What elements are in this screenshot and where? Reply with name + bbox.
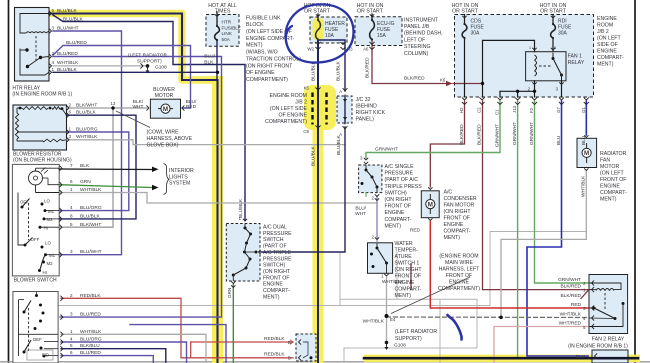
label A/C single pressure pin numbers bbox=[360, 156, 375, 201]
connector A below J/C 32 bbox=[339, 117, 347, 137]
switch S2 internal contacts bbox=[19, 292, 59, 361]
relay K3 pin connectors bbox=[592, 280, 595, 329]
svg-text:BLU/WHT: BLU/WHT bbox=[57, 25, 79, 31]
svg-text:30A: 30A bbox=[558, 31, 568, 37]
engine room main wire harness outline (upper) bbox=[46, 232, 586, 363]
svg-text:ENGINE: ENGINE bbox=[597, 49, 617, 55]
wire BLK/WHT branch junction 13 down to blower switch pin5 bbox=[59, 108, 113, 227]
label BLU 2 wire label (bottom) bbox=[576, 354, 591, 361]
wire BLU/WHT pin3 to blower switch pin3 bbox=[53, 31, 122, 255]
fuse ECU-IG 15A bbox=[370, 14, 375, 40]
wire GRN/WHT C1 to A/C single pressure switch pin3 bbox=[366, 101, 500, 158]
svg-text:MENT): MENT) bbox=[395, 293, 412, 299]
wire BLU/BLK pin1 to highlighted wire junction bbox=[53, 71, 218, 73]
label A6 connector label bbox=[363, 47, 369, 52]
svg-text:PRESSURE: PRESSURE bbox=[263, 256, 292, 262]
svg-text:1: 1 bbox=[70, 329, 73, 334]
svg-text:COLUMN): COLUMN) bbox=[404, 51, 428, 57]
svg-text:TIMES: TIMES bbox=[215, 9, 231, 15]
wire BLU/WHT water temp pin2 connector bbox=[376, 238, 378, 243]
svg-text:(ON RIGHT: (ON RIGHT bbox=[444, 209, 472, 215]
svg-text:MAIN WIRE: MAIN WIRE bbox=[445, 260, 473, 266]
wire thick BLU/BLK along bottom edge highlighted bbox=[364, 357, 638, 360]
svg-text:BLK/RED: BLK/RED bbox=[560, 293, 581, 299]
svg-text:(ON LEFT: (ON LEFT bbox=[600, 171, 624, 177]
label BLU/BLK vertical below C9 bbox=[311, 145, 317, 166]
wire highlight: yellow marker over BLU/BLK circuit from HTR relay pin 5 bbox=[49, 14, 218, 363]
fuse HTR fusible link 50A bbox=[215, 14, 220, 41]
motor M1 BLOWER MOTOR box bbox=[150, 99, 180, 118]
svg-text:M2: M2 bbox=[47, 217, 54, 222]
wire WHT/BLK mode switch pin1 bbox=[61, 334, 206, 363]
svg-text:4: 4 bbox=[70, 337, 73, 342]
svg-text:WHT/BLK: WHT/BLK bbox=[57, 60, 79, 66]
wire BLK/RED C2 to FAN 2 relay pin1 bbox=[483, 101, 589, 290]
svg-text:OR START: OR START bbox=[357, 9, 384, 15]
label J/C 32 note bbox=[356, 97, 386, 123]
wire FAN1 relay contact out to G7 bbox=[561, 81, 563, 97]
svg-text:WHT/BLK: WHT/BLK bbox=[363, 319, 385, 325]
motor M2 radiator fan motor symbol bbox=[582, 135, 591, 170]
label water temp pin numbers bbox=[372, 235, 385, 279]
svg-text:LO: LO bbox=[44, 199, 50, 204]
arrow to interior lights (GRN) bbox=[152, 185, 159, 190]
svg-text:SYSTEM: SYSTEM bbox=[169, 181, 190, 187]
resistor R1 pin connectors bbox=[66, 105, 69, 142]
wire FAN1 relay coil return to F2 bbox=[534, 81, 536, 97]
svg-text:W2: W2 bbox=[307, 47, 314, 52]
label W2 connector label bbox=[307, 47, 314, 52]
label K5 connector label bbox=[304, 86, 310, 91]
svg-text:SUPPORT): SUPPORT) bbox=[395, 336, 422, 342]
svg-text:1: 1 bbox=[52, 67, 55, 72]
fusible link block box (HOT AT ALL TIMES) bbox=[206, 15, 239, 47]
switch S5 WATER TEMPERATURE SWITCH 1 box bbox=[368, 243, 393, 273]
wire HTR fusible link feed and output bbox=[216, 12, 218, 26]
svg-text:ENGINE: ENGINE bbox=[444, 222, 464, 228]
svg-text:G7: G7 bbox=[556, 107, 561, 113]
svg-text:1: 1 bbox=[69, 126, 72, 131]
svg-text:GRN/WHT: GRN/WHT bbox=[375, 146, 398, 152]
svg-text:B: B bbox=[288, 340, 291, 345]
label connector J13 and wire GRN/WHT vertical bbox=[512, 105, 518, 145]
label HTR RELAY title bbox=[12, 86, 72, 98]
relay K2 FAN 1 RELAY box bbox=[526, 52, 566, 81]
relay K2 FAN 1 RELAY internal coil and contact bbox=[532, 48, 563, 85]
svg-text:50A: 50A bbox=[222, 37, 231, 42]
svg-text:BLU/BLK: BLU/BLK bbox=[76, 110, 97, 116]
svg-text:M1: M1 bbox=[49, 253, 56, 258]
svg-text:(ON RIGHT FRONT: (ON RIGHT FRONT bbox=[246, 63, 293, 69]
connector K6 BLK/RED into J/B 2 bbox=[446, 81, 453, 87]
svg-text:(BEHIND: (BEHIND bbox=[356, 104, 378, 110]
label cowl wire harness note bbox=[147, 130, 193, 149]
svg-text:GRN/WHT: GRN/WHT bbox=[529, 122, 535, 145]
svg-text:13: 13 bbox=[111, 101, 116, 106]
svg-text:C9: C9 bbox=[303, 129, 309, 134]
svg-text:BLK/BLU: BLK/BLU bbox=[80, 343, 100, 349]
svg-text:HI: HI bbox=[44, 226, 48, 231]
svg-text:BLU: BLU bbox=[581, 135, 587, 145]
svg-text:MOTOR: MOTOR bbox=[155, 93, 174, 99]
wire BLK/RED K6 into engine room J/B 2 bbox=[453, 83, 483, 85]
label HEATER FUSE 10A value bbox=[325, 21, 345, 39]
svg-text:SWITCH): SWITCH) bbox=[263, 263, 285, 269]
label BLOWER MOTOR title bbox=[153, 87, 175, 99]
annotation: blue pen stroke (bottom middle-right) bbox=[448, 315, 462, 340]
label blower switch wire labels bbox=[70, 163, 102, 255]
page bottom border bbox=[0, 361, 650, 363]
wire RED/BLK branch to connector upper pin bbox=[190, 342, 192, 358]
svg-text:A/C TRIPLE: A/C TRIPLE bbox=[263, 250, 292, 256]
svg-text:ENGINE: ENGINE bbox=[263, 282, 283, 288]
label ENGINE ROOM J/B 2 note (right) bbox=[597, 16, 624, 68]
svg-text:4: 4 bbox=[70, 205, 73, 210]
svg-text:DEF: DEF bbox=[33, 337, 42, 342]
engine room J/B heater fuse box bbox=[310, 17, 347, 43]
svg-text:MENT): MENT) bbox=[597, 62, 614, 68]
svg-text:BLU/BLK: BLU/BLK bbox=[80, 214, 101, 220]
wire BLU G1 to radiator fan motor bbox=[585, 101, 587, 135]
label HOT IN ON OR START header (CDS) bbox=[452, 3, 479, 15]
svg-text:WHT/BLK: WHT/BLK bbox=[76, 134, 98, 140]
ground G108 (left radiator support, HTR relay WHT/BLK) bbox=[140, 63, 149, 73]
svg-text:A/C SINGLE: A/C SINGLE bbox=[385, 164, 415, 170]
motor M3 A/C condenser fan motor symbol bbox=[426, 187, 435, 220]
svg-text:BLU/RED: BLU/RED bbox=[80, 312, 101, 318]
svg-text:BLU/ORG: BLU/ORG bbox=[80, 337, 102, 343]
svg-text:TEMPER-: TEMPER- bbox=[395, 248, 419, 254]
svg-text:FAN: FAN bbox=[600, 158, 610, 164]
wire BLK/RED stub at water temp switch bbox=[410, 264, 412, 290]
svg-text:BLK/RED: BLK/RED bbox=[459, 124, 465, 145]
svg-text:OFF: OFF bbox=[31, 237, 40, 242]
fuse RDI 30A bbox=[551, 16, 556, 39]
svg-text:WHT: WHT bbox=[133, 104, 144, 110]
svg-text:(IN ENGINE ROOM R/B 1): (IN ENGINE ROOM R/B 1) bbox=[12, 91, 72, 97]
svg-text:J/B 2: J/B 2 bbox=[295, 100, 307, 106]
node junction WHT/BLK on E4 line bbox=[499, 316, 503, 320]
relay K3 FAN 2 RELAY box bbox=[589, 275, 628, 334]
svg-text:WHT/RED: WHT/RED bbox=[559, 321, 582, 327]
relay K1 pin connectors bbox=[49, 11, 52, 75]
svg-text:OR START: OR START bbox=[452, 9, 479, 15]
wire BLK/RED diagonal into FAN 2 relay pin1 bbox=[581, 291, 588, 299]
svg-text:FRONT OF: FRONT OF bbox=[446, 273, 472, 279]
svg-text:(ON LEFT: (ON LEFT bbox=[597, 36, 621, 42]
svg-text:HARNESS, LEFT: HARNESS, LEFT bbox=[439, 267, 480, 273]
label RDI FUSE 30A value bbox=[558, 19, 572, 37]
highlight over HEATER fuse symbol bbox=[313, 18, 324, 40]
svg-text:PRESSURE: PRESSURE bbox=[263, 231, 292, 237]
svg-text:GLOVE BOX): GLOVE BOX) bbox=[147, 142, 179, 148]
wire fusible link output to junction bbox=[216, 40, 218, 80]
wire BLU/BLK J/C 32 internal bbox=[344, 95, 346, 123]
svg-text:RED: RED bbox=[186, 104, 197, 110]
motor M3 A/C CONDENSER FAN MOTOR box bbox=[421, 191, 439, 218]
label connector C1 and wire GRN/WHT vertical bbox=[495, 109, 501, 147]
label CDS FUSE 30A value bbox=[471, 19, 485, 37]
wire BLU/BLK heater fuse output highlighted bbox=[317, 40, 319, 363]
svg-text:COMPART-: COMPART- bbox=[395, 287, 422, 293]
svg-text:H2: H2 bbox=[459, 107, 464, 113]
wire RDI fuse output to FAN1 relay contact bbox=[552, 38, 554, 52]
wire WHT/BLK pin4 to ground G108 bbox=[53, 65, 146, 67]
svg-text:(ON RIGHT: (ON RIGHT bbox=[385, 197, 413, 203]
label BLU/BLK vertical (R3 wire) bbox=[336, 60, 342, 81]
wire RED/BLK upper to connector bbox=[191, 341, 293, 343]
label A/C SINGLE PRESSURE note bbox=[385, 164, 423, 229]
label FAN1 relay pin numbers bbox=[528, 46, 559, 92]
svg-text:M1: M1 bbox=[48, 209, 55, 214]
label mode switch position labels bbox=[33, 337, 49, 357]
svg-text:RADIATOR: RADIATOR bbox=[600, 151, 627, 157]
svg-text:G108: G108 bbox=[155, 64, 167, 70]
svg-text:BLU/WHT: BLU/WHT bbox=[80, 249, 102, 255]
svg-text:K6: K6 bbox=[440, 78, 446, 83]
svg-text:FRONT OF: FRONT OF bbox=[395, 274, 421, 280]
label BLOWER SWITCH title bbox=[14, 278, 57, 284]
wire BLU/RED pin2 to mode switch pin3 bbox=[53, 57, 222, 318]
label FAN 2 relay wire labels bbox=[558, 277, 586, 330]
label BLOWER RESISTOR title bbox=[13, 152, 72, 164]
svg-text:3: 3 bbox=[70, 312, 73, 317]
label HOT IN ON OR START header (ECU-IG) bbox=[357, 3, 384, 15]
svg-text:STEERING: STEERING bbox=[404, 44, 431, 50]
fuse HEATER 10A bbox=[316, 14, 321, 40]
svg-text:BLU/BLK: BLU/BLK bbox=[63, 16, 84, 22]
instrument panel J/B box bbox=[355, 17, 402, 46]
junction connector J/C 32 box bbox=[337, 96, 352, 123]
wire CDS fuse feed bbox=[464, 15, 466, 25]
wire BLU/RED pin2 branch to blower motor bbox=[53, 46, 191, 109]
label mode switch wire labels bbox=[70, 293, 102, 356]
label connector C2 and wire BLK/RED vertical bbox=[477, 107, 483, 145]
svg-text:5: 5 bbox=[70, 343, 73, 348]
engine room J/B 2 box (top right) bbox=[455, 15, 594, 98]
svg-text:M2: M2 bbox=[47, 261, 54, 266]
svg-text:RED/BLK: RED/BLK bbox=[264, 351, 285, 357]
svg-text:RED/BLK: RED/BLK bbox=[80, 293, 101, 299]
svg-text:BLU/: BLU/ bbox=[355, 205, 366, 211]
svg-text:BLK/WHT: BLK/WHT bbox=[80, 222, 101, 228]
relay K1 HTR RELAY internal coil and contacts bbox=[20, 14, 49, 76]
svg-text:BLU/BLK: BLU/BLK bbox=[336, 60, 342, 81]
svg-text:3: 3 bbox=[70, 249, 73, 254]
node E4 junction bbox=[385, 314, 389, 318]
svg-text:COMPART-: COMPART- bbox=[600, 190, 627, 196]
svg-text:2: 2 bbox=[52, 51, 55, 56]
svg-text:(PART OF A/C: (PART OF A/C bbox=[385, 177, 419, 183]
resistor R1 BLOWER RESISTOR box bbox=[13, 105, 67, 150]
label blower resistor wire labels bbox=[69, 102, 99, 140]
svg-text:E4: E4 bbox=[390, 317, 396, 322]
svg-text:BLK/: BLK/ bbox=[133, 99, 144, 105]
svg-text:SUPPORT): SUPPORT) bbox=[137, 59, 162, 65]
svg-text:LIGHTS: LIGHTS bbox=[169, 174, 188, 180]
label FAN 1 RELAY title bbox=[568, 54, 585, 66]
svg-text:(LEFT RADIATOR: (LEFT RADIATOR bbox=[395, 329, 437, 335]
wire WHT/BLK water temp pin1 to E4 and ground G108 bbox=[386, 278, 388, 342]
page left border bbox=[8, 0, 10, 363]
label connector G1 and wire BLU vertical bbox=[581, 107, 587, 145]
svg-text:BLK: BLK bbox=[80, 163, 90, 169]
label BLU/BLK vertical (W2 wire) bbox=[311, 60, 317, 81]
label WHT/BLK vertical (radiator fan ground) bbox=[581, 175, 587, 197]
wire WHT/BLK resistor pin3 bbox=[67, 140, 346, 145]
wire WHT/BLK blower switch pin1 to A/C single pressure switch bbox=[59, 193, 377, 204]
label left radiator support / G108 label bbox=[128, 53, 167, 71]
svg-text:ATURE: ATURE bbox=[395, 254, 413, 260]
svg-text:OR START: OR START bbox=[540, 9, 567, 15]
label blower motor wire labels bbox=[111, 99, 197, 110]
svg-text:(ENGINE ROOM: (ENGINE ROOM bbox=[439, 254, 478, 260]
switch S2 heater mode switch box bbox=[13, 292, 58, 363]
connector A above J/C 32 bbox=[339, 88, 347, 102]
label HTR FUSIBLE LINK 50A value bbox=[222, 20, 242, 42]
svg-text:CONDENSER: CONDENSER bbox=[444, 196, 477, 202]
svg-text:BLU/BLK: BLU/BLK bbox=[311, 145, 317, 166]
wire BLU/BLK highlighted vertical (junction to page bottom) bbox=[216, 80, 218, 363]
svg-text:BLK: BLK bbox=[204, 59, 214, 65]
wire WHT/RED FAN 2 relay pin5 bbox=[494, 327, 588, 363]
svg-text:OF ENGINE: OF ENGINE bbox=[246, 70, 275, 76]
label FUSIBLE LINK BLOCK note bbox=[246, 15, 301, 83]
svg-text:5: 5 bbox=[554, 46, 556, 50]
svg-text:(ON RIGHT: (ON RIGHT bbox=[263, 269, 291, 275]
switch S5 water temperature switch 1 contacts bbox=[370, 237, 389, 276]
ground G108 (left radiator support) bbox=[385, 341, 389, 350]
label RADIATOR FAN MOTOR note bbox=[600, 151, 627, 203]
svg-text:2: 2 bbox=[69, 102, 72, 107]
label HOT IN ON OR START header (RDI) bbox=[540, 3, 567, 15]
label FAN 2 RELAY title bbox=[592, 337, 625, 343]
svg-text:GRN: GRN bbox=[227, 288, 232, 298]
svg-text:INTERIOR: INTERIOR bbox=[169, 168, 194, 174]
wire GRN/WHT label line bbox=[365, 193, 367, 196]
svg-text:(IN ENGINE ROOM R/B 1): (IN ENGINE ROOM R/B 1) bbox=[568, 344, 628, 350]
svg-text:COMPART-: COMPART- bbox=[263, 288, 290, 294]
svg-text:BLK/WHT: BLK/WHT bbox=[76, 102, 97, 108]
wire relay output bus to C1 and J13 bbox=[500, 90, 535, 92]
label BLU/BLK vertical (A/C dual feed) bbox=[238, 198, 243, 218]
svg-text:BLU/ORG: BLU/ORG bbox=[80, 205, 102, 211]
svg-text:SWITCH 1: SWITCH 1 bbox=[395, 261, 420, 267]
svg-text:COMPARTMENT): COMPARTMENT) bbox=[246, 77, 288, 83]
wire BLK/WHT resistor pin2 to blower motor bbox=[67, 107, 148, 109]
annotation: blue pen circle around HEATER fuse bbox=[286, 4, 354, 62]
svg-text:FUSIBLE LINK: FUSIBLE LINK bbox=[246, 15, 281, 21]
svg-text:4: 4 bbox=[52, 60, 55, 65]
svg-text:MOTOR: MOTOR bbox=[600, 164, 619, 170]
label HOT AT ALL TIMES header bbox=[208, 3, 237, 15]
svg-text:OF ENGINE: OF ENGINE bbox=[278, 113, 307, 119]
label GRN vertical (A/C dual output) bbox=[227, 288, 232, 298]
svg-text:RIGHT KICK: RIGHT KICK bbox=[356, 110, 386, 116]
label HOT IN ON OR START header (heater) bbox=[304, 3, 331, 15]
svg-text:FAN 2 RELAY: FAN 2 RELAY bbox=[592, 337, 625, 343]
wire J13 exit bbox=[517, 91, 519, 97]
svg-text:F2: F2 bbox=[529, 107, 534, 113]
svg-text:ENGINE: ENGINE bbox=[385, 210, 405, 216]
svg-text:(PART OF: (PART OF bbox=[263, 244, 287, 250]
svg-text:OR START: OR START bbox=[304, 9, 331, 15]
wire highlight: yellow marker over BLU/BLK wire below heater fuse J/B connector bbox=[313, 89, 324, 363]
svg-text:BLU/BLK: BLU/BLK bbox=[336, 134, 342, 155]
svg-text:(ON BLOWER HOUSING): (ON BLOWER HOUSING) bbox=[13, 157, 72, 163]
label GRN/WHT wire label bbox=[375, 146, 398, 152]
svg-text:RED: RED bbox=[571, 302, 582, 308]
svg-text:J13: J13 bbox=[512, 105, 517, 113]
svg-text:(ON RIGHT: (ON RIGHT bbox=[395, 267, 423, 273]
svg-text:FAN 1: FAN 1 bbox=[568, 54, 583, 60]
svg-text:M: M bbox=[163, 106, 168, 113]
svg-text:C2: C2 bbox=[477, 107, 482, 113]
wire WHT/BLK dashed E4 to FAN 2 relay pin4 bbox=[387, 316, 589, 319]
wire BLU/BLK pin5 branch to A/C dual pressure switch bbox=[53, 15, 245, 221]
label WHT/BLK label below water temp switch bbox=[382, 279, 404, 285]
switch S1 BLOWER SWITCH box bbox=[12, 164, 59, 276]
wire BLU/ORG mode switch pin4 bbox=[61, 342, 187, 363]
svg-text:BLU/: BLU/ bbox=[204, 54, 215, 60]
svg-text:BLU/: BLU/ bbox=[186, 99, 197, 105]
svg-text:LO: LO bbox=[45, 241, 51, 246]
svg-text:TRIPLE PRESS: TRIPLE PRESS bbox=[385, 184, 423, 190]
connector W2 below heater fuse bbox=[315, 42, 320, 50]
label INSTRUMENT PANEL J/B note bbox=[404, 17, 443, 57]
svg-text:M: M bbox=[428, 201, 433, 208]
switch S4 A/C dual pressure switch box bbox=[226, 224, 260, 282]
svg-text:30A: 30A bbox=[471, 31, 481, 37]
svg-text:10A: 10A bbox=[325, 33, 335, 39]
pointer line to E4 from harness note bbox=[391, 277, 470, 314]
svg-text:K5: K5 bbox=[304, 86, 310, 91]
label R3 connector label bbox=[347, 47, 353, 52]
connector R3 below heater fuse branch bbox=[340, 42, 345, 50]
svg-text:GRN/WHT: GRN/WHT bbox=[512, 122, 518, 145]
switch S1 lower contact bank bbox=[24, 238, 60, 273]
label INTERIOR LIGHTS SYSTEM note bbox=[169, 168, 194, 187]
wire BLU G7 to FAN 3 relay (bottom) bbox=[527, 101, 588, 356]
label BLU/WHT label bbox=[355, 205, 367, 217]
wire C1 exit bbox=[499, 91, 501, 97]
wire GRN/WHT F2 to FAN 2 relay pin2 bbox=[535, 101, 589, 283]
svg-text:SWITCH): SWITCH) bbox=[385, 190, 407, 196]
svg-text:5: 5 bbox=[52, 8, 55, 13]
wire GRN pin6 to interior lights system bbox=[59, 185, 152, 188]
node junction BLU/BLK pin1 on highlighted wire bbox=[216, 71, 219, 74]
switch S2 pin connectors bbox=[60, 296, 63, 359]
svg-text:(COWL WIRE: (COWL WIRE bbox=[147, 130, 180, 136]
connector A6 below ECU-IG fuse bbox=[369, 42, 374, 50]
svg-text:COMPART-: COMPART- bbox=[385, 217, 412, 223]
wire BLU/WHT A/C single pressure pin2 to water temp switch pin2 bbox=[376, 196, 378, 238]
svg-text:BLOWER SWITCH: BLOWER SWITCH bbox=[14, 278, 57, 284]
wire CDS fuse output to H2 exit bbox=[464, 38, 466, 97]
svg-text:BLOCK: BLOCK bbox=[246, 22, 264, 28]
brace for interior lights system bbox=[164, 164, 170, 195]
wire WHT/BLK radiator fan motor to E4 junction bbox=[501, 171, 586, 317]
svg-text:LINK: LINK bbox=[222, 31, 233, 36]
svg-text:GRN/WHT: GRN/WHT bbox=[495, 124, 501, 147]
svg-text:1: 1 bbox=[70, 187, 73, 192]
label BLK/RED horizontal label bbox=[404, 75, 425, 81]
label BLU/BLK label below fusible link bbox=[204, 54, 215, 66]
svg-text:F/D: F/D bbox=[42, 352, 49, 357]
node junction K6/coil feed bbox=[481, 82, 484, 85]
wire GRN A/C dual pressure switch to bottom bbox=[232, 285, 234, 363]
svg-text:3: 3 bbox=[52, 25, 55, 30]
